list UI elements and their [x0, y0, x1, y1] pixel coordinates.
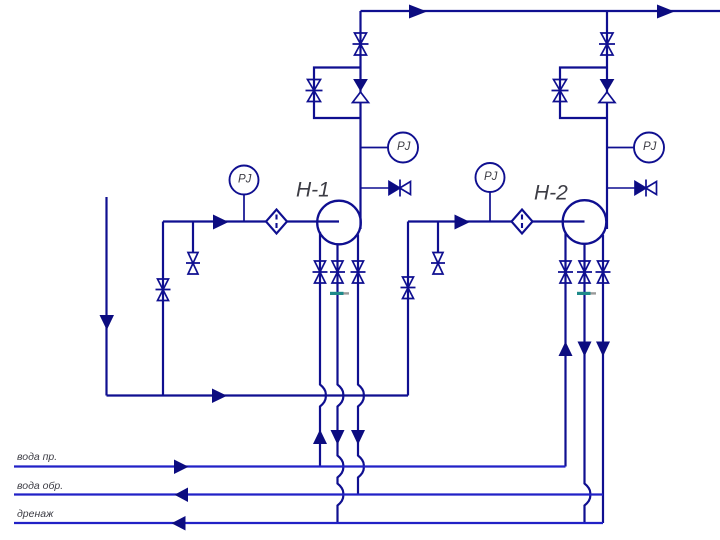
valve pump H-1 line B	[330, 261, 345, 283]
gauge PI4	[634, 133, 664, 163]
valve on x163	[156, 279, 171, 301]
wire vertical x163 to manifold	[162, 222, 164, 396]
valve on x408	[401, 277, 416, 299]
wire supply water line (вода пр.)	[14, 465, 566, 467]
valve bypass H-1	[306, 80, 323, 102]
arrow H-1 line A up	[313, 430, 327, 445]
wire suction line H-2	[408, 220, 585, 222]
wire vent stub H-1	[361, 187, 390, 189]
arrow top line 2	[657, 5, 675, 19]
arrow return manifold	[212, 389, 227, 404]
wire vertical x408 to manifold	[407, 222, 409, 396]
svg-text:PJ: PJ	[643, 141, 657, 153]
svg-text:PJ: PJ	[397, 141, 411, 153]
gauge PI3	[476, 163, 505, 192]
svg-text:Н-2: Н-2	[534, 182, 568, 205]
arrow suction H-1	[213, 215, 229, 230]
svg-text:дренаж: дренаж	[17, 508, 54, 520]
arrow top line 1	[409, 5, 427, 19]
wire gauge stem PI2	[361, 147, 389, 149]
arrow H-1 line C down	[351, 430, 365, 445]
arrow H-1 line B down	[331, 430, 345, 445]
check valve H-2	[599, 80, 615, 103]
gauge PI2	[388, 133, 418, 163]
valve drain stub H-1	[186, 253, 200, 275]
filter H-2	[512, 210, 533, 234]
gauge PI1	[230, 166, 259, 195]
valve drain stub H-2	[431, 253, 445, 275]
wire top header line	[361, 10, 720, 12]
check valve H-1	[353, 80, 369, 103]
wire drain stub H-2 suction	[437, 222, 439, 253]
valve gate riser H-2	[599, 33, 615, 55]
svg-text:вода обр.: вода обр.	[17, 480, 63, 492]
pump H-1	[317, 201, 361, 245]
valve pump H-2 line A	[558, 261, 573, 283]
valve vent H-1 horizontal	[389, 180, 411, 197]
wire pump H-1 line C to return	[358, 234, 364, 494]
arrow return water left	[175, 488, 189, 503]
valve vent H-1 filled half	[389, 182, 400, 195]
svg-text:вода пр.: вода пр.	[17, 451, 57, 463]
valve vent H-2 horizontal	[635, 180, 657, 197]
wire riser pump H-2 discharge	[606, 11, 608, 229]
node seal mark H-2 (teal)	[577, 292, 596, 295]
svg-text:PJ: PJ	[484, 171, 498, 183]
wire pump H-2 line A to supply	[564, 233, 566, 466]
wire drain stub H-1 suction	[192, 222, 194, 253]
svg-text:Н-1: Н-1	[296, 179, 330, 202]
arrow H-2 line A up	[559, 342, 573, 357]
pump H-2	[563, 200, 607, 244]
arrow left supply down	[100, 315, 115, 330]
valve pump H-1 line A	[313, 261, 328, 283]
arrow H-2 line B down	[578, 342, 592, 357]
arrow drainage left	[172, 516, 186, 531]
wire bypass loop H-2	[560, 68, 607, 119]
wire return water line (вода обр.)	[14, 493, 603, 495]
wire pump H-1 line A to supply	[320, 232, 326, 467]
node seal mark H-1 (teal)	[330, 292, 349, 295]
arrow supply water right	[174, 460, 189, 475]
valve pump H-2 line C	[596, 261, 611, 283]
svg-text:PJ: PJ	[238, 174, 252, 186]
wire riser pump H-1 discharge	[359, 11, 361, 229]
wire pump H-1 line B to drain	[338, 244, 344, 523]
wire gauge stem PI1	[243, 195, 245, 222]
wire gauge stem PI4	[607, 147, 635, 149]
wire bypass loop H-1	[314, 68, 361, 119]
arrow H-2 line C down	[596, 342, 610, 357]
valve pump H-1 line C	[351, 261, 366, 283]
valve pump H-2 line B	[577, 261, 592, 283]
arrow suction H-2	[455, 215, 471, 230]
valve gate riser H-1	[353, 33, 369, 55]
wire vent stub H-2	[607, 187, 635, 189]
valve vent H-2 filled half	[635, 182, 646, 195]
wire suction line H-1	[163, 220, 339, 222]
wire left supply vertical	[105, 197, 107, 396]
wire gauge stem PI3	[489, 193, 491, 222]
valve bypass H-2	[552, 80, 569, 102]
wire pump H-2 line B to drain	[585, 244, 591, 523]
wire bottom return manifold	[107, 394, 409, 396]
wire pump H-2 line C to drain end	[602, 235, 604, 523]
wire drainage line (дренаж)	[14, 522, 603, 524]
filter H-1	[266, 210, 287, 234]
